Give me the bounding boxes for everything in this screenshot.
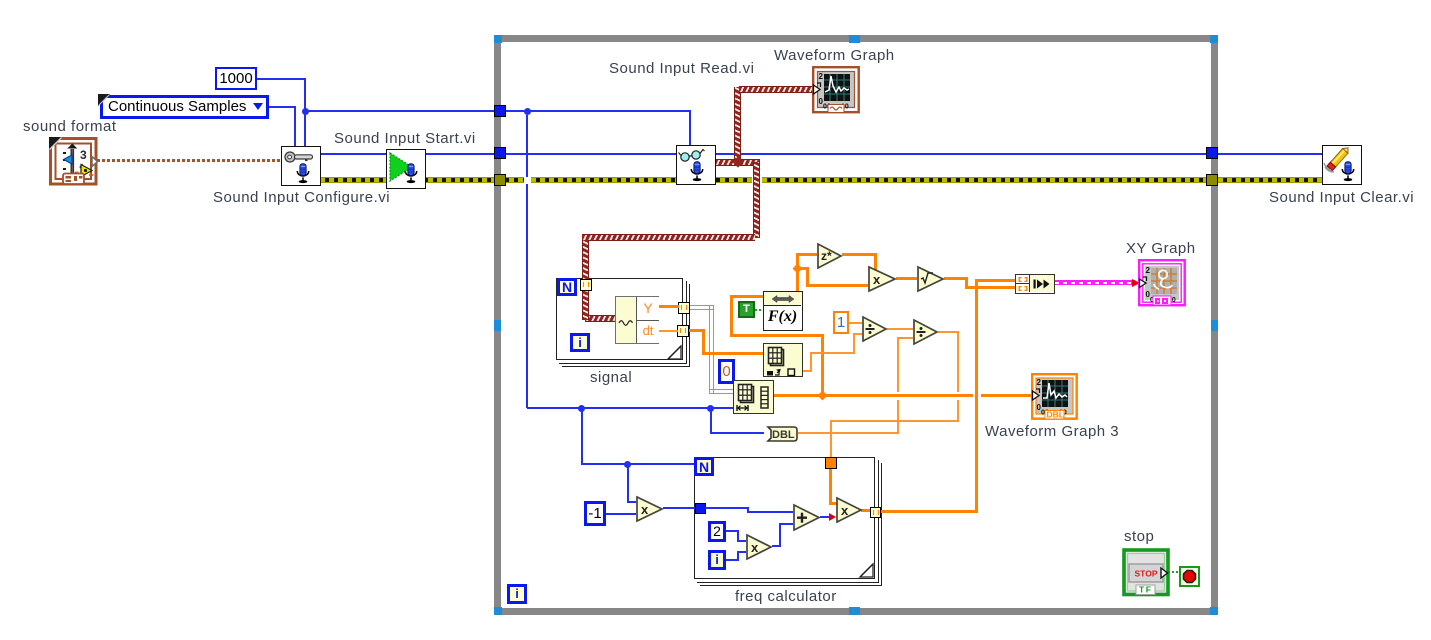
wire: 1000 vertical into Configure xyxy=(304,78,306,146)
tunnel: samples in (blue) xyxy=(494,105,506,117)
freq calculator for-loop stacked page 2 xyxy=(697,460,879,583)
wire: multiply2 out to plus bottom xyxy=(772,545,781,547)
wire: -1 out xyxy=(606,513,636,515)
wire: FFT output up from top xyxy=(796,253,799,291)
multiply (power spectrum) xyxy=(868,266,897,292)
wire: freq calc out to vertical xyxy=(881,510,978,513)
while loop left border xyxy=(494,35,501,615)
wire: stop to condition terminal xyxy=(1168,571,1180,573)
wire: number of samples to loop xyxy=(305,110,494,112)
wire: 1 const to divide1 xyxy=(849,322,862,324)
constant 0 xyxy=(718,359,735,384)
selection handle top-mid xyxy=(849,35,860,43)
selection handle top-left xyxy=(494,35,502,43)
freq loop N terminal xyxy=(694,457,714,476)
label XY Graph xyxy=(1126,240,1196,257)
square root xyxy=(917,266,945,292)
wire: long vertical N-feed xyxy=(526,115,528,177)
svg-text:DBL: DBL xyxy=(772,429,795,441)
red arrow at XY input xyxy=(1132,279,1140,287)
wire: striped to Waveform Graph xyxy=(739,86,812,93)
junction dot at 628,464 xyxy=(624,461,631,468)
wire: Y 2D array horizontal (double line) xyxy=(689,305,713,310)
wire: striped down vertical xyxy=(753,162,760,238)
wire: inside freq calc to plus xyxy=(705,507,749,509)
wire: FFT out branch to multiply bottom xyxy=(796,267,809,270)
wire: sqrt out to bundle xyxy=(944,277,968,280)
wire: Y 2D array into reshape xyxy=(709,389,733,394)
signal for-loop stacked page 3 xyxy=(562,284,690,367)
FFT node xyxy=(763,291,803,331)
wire: FFT branch vertical to y296 xyxy=(730,295,733,337)
freq calculator for-loop stacked page 3 xyxy=(700,463,882,586)
wire: into FFT left xyxy=(730,295,763,298)
svg-text:z*: z* xyxy=(821,249,832,263)
wire: error cluster main run xyxy=(320,177,524,183)
wire: bundle to XY graph xyxy=(1055,280,1135,285)
svg-text:x: x xyxy=(641,502,649,517)
wire: DBL up to divide2 bottom (gap at y395) xyxy=(897,338,899,392)
tunnel: error out (olive) xyxy=(1206,174,1218,186)
label Sound Input Configure.vi xyxy=(213,189,390,206)
svg-text:x: x xyxy=(873,272,881,287)
label Waveform Graph 3 xyxy=(985,423,1119,440)
index array node xyxy=(763,343,803,377)
label Sound Input Read.vi xyxy=(609,60,754,77)
constant Continuous Samples xyxy=(100,95,269,119)
multiply2 (2 x i) xyxy=(746,534,773,560)
wire: FFT out to z* xyxy=(796,253,817,256)
wire: z* out to multiply top xyxy=(842,253,877,256)
wire: multiply out to sqrt xyxy=(896,277,917,280)
wire: striped into signal loop xyxy=(582,240,589,320)
selection handle bottom-left xyxy=(494,607,502,615)
multiply3 xyxy=(836,497,863,523)
wire: index array out thin xyxy=(803,370,811,372)
main loop i terminal xyxy=(507,584,527,604)
striped wire inside into icon xyxy=(582,291,589,320)
junction dot at 581,408 xyxy=(578,405,585,412)
label DBL conversion tag xyxy=(763,426,799,442)
wire: striped bottom horizontal xyxy=(582,234,755,241)
wire: samples down into Read xyxy=(689,110,691,146)
wire: task id Configure to Start to loop xyxy=(320,153,734,155)
wire: down to freq calc N xyxy=(581,408,583,464)
svg-text:DBL: DBL xyxy=(1047,410,1064,420)
wire: continuous samples horizontal xyxy=(269,106,296,108)
wire: striped up branch vertical xyxy=(734,87,741,161)
label sound format xyxy=(23,118,117,135)
wire: freq calc N horizontal xyxy=(581,463,694,465)
wire: jog into multiply1 xyxy=(627,501,636,503)
wire: dt array out xyxy=(688,329,705,332)
wire: striped inside signal loop horizontal xyxy=(585,315,615,322)
while loop right border xyxy=(1211,35,1218,615)
label Sound Input Start.vi xyxy=(334,130,476,147)
tunnel: error in (olive) xyxy=(494,174,506,186)
signal loop dog-ear xyxy=(668,346,683,360)
wire: dt array to index icon xyxy=(702,352,763,355)
freq loop dog-ear xyxy=(860,564,875,578)
wire: task id to Clear xyxy=(1218,153,1322,155)
freq wires inside redrawn above frame xyxy=(705,507,749,509)
wire: plus out to multiply3 xyxy=(820,516,830,518)
freq loop i terminal xyxy=(708,550,726,570)
freq loop output tunnel xyxy=(870,507,881,518)
T dotted wire xyxy=(755,309,763,311)
constant -1 xyxy=(584,501,606,526)
divide 2 xyxy=(913,319,939,345)
selection handle top-right xyxy=(1210,35,1218,43)
label stop xyxy=(1124,528,1154,545)
freq calculator for-loop main frame xyxy=(694,457,875,579)
label signal xyxy=(590,369,632,386)
wire: down to multiply1 top xyxy=(627,464,629,503)
divide 1 xyxy=(862,316,888,342)
constant 1 xyxy=(833,311,849,334)
wire: FFT branch horizontal y335 xyxy=(730,334,824,337)
wire: 1000 to junction, horizontal xyxy=(257,78,306,80)
svg-text:TF: TF xyxy=(1139,585,1152,595)
svg-text:3: 3 xyxy=(80,148,87,162)
wire: samples inside loop horizontal xyxy=(505,110,691,112)
signal loop input tunnel xyxy=(580,279,592,291)
label Waveform Graph xyxy=(774,47,895,64)
junction diamond FFT out xyxy=(793,264,803,274)
selection handle bottom-mid xyxy=(849,607,860,615)
tunnel: dt out xyxy=(677,325,689,337)
reshape array node xyxy=(733,380,774,414)
while loop top border xyxy=(494,35,1218,42)
tunnel: Y out xyxy=(678,302,690,314)
svg-text:2: 2 xyxy=(1037,378,1042,387)
constant 2 xyxy=(708,521,726,542)
svg-text:STOP: STOP xyxy=(1135,569,1158,579)
selection handle bottom-right xyxy=(1210,607,1218,615)
constant 1000 xyxy=(215,67,257,90)
junction dot 1000 xyxy=(302,108,309,115)
wire: sound format cluster xyxy=(97,159,281,162)
wire: freq vertical to bundle top xyxy=(975,279,978,512)
multiply1 (-1 x N) xyxy=(636,496,664,522)
get waveform components icon xyxy=(615,296,659,344)
svg-text:x: x xyxy=(751,540,759,555)
wire: dt array vertical xyxy=(702,329,705,355)
wire: reshape out to WG3 (with crossing gap) xyxy=(774,394,973,397)
wire: dt out inside loop xyxy=(658,330,678,332)
signal loop N terminal xyxy=(557,278,577,296)
svg-text:2: 2 xyxy=(1146,266,1151,275)
selection handle left-mid xyxy=(494,320,501,331)
wire: to DBL down xyxy=(710,408,712,433)
constant T boolean xyxy=(738,301,755,318)
freq loop blue input tunnel xyxy=(695,503,706,514)
wire: divide1 out to divide2 xyxy=(887,328,913,330)
tunnel: task id out (blue) xyxy=(1206,147,1218,159)
wire: const2 to multiply2 xyxy=(726,530,739,532)
label freq calculator xyxy=(735,588,837,605)
add xyxy=(793,504,821,531)
wire: inside freq calc loop down from tunnel xyxy=(829,468,832,504)
wire: multiply3 out to out tunnel xyxy=(861,509,871,512)
tunnel: task id in (blue) xyxy=(494,147,506,159)
label Sound Input Clear.vi xyxy=(1269,189,1414,206)
wire: divide2 out down to freq calc tunnel xyxy=(938,331,959,333)
signal for-loop stacked page 2 xyxy=(559,281,687,364)
signal for-loop main frame xyxy=(556,278,683,360)
wire: Read data out horizontal xyxy=(715,159,760,166)
svg-text:2: 2 xyxy=(819,72,824,81)
junction dot at 711,408 xyxy=(707,405,714,412)
svg-text:x: x xyxy=(841,503,849,518)
wire: to DBL horizontal xyxy=(710,432,764,434)
wire: error cluster to Clear xyxy=(1218,177,1322,183)
bundle node xyxy=(1015,274,1055,294)
wire: FFT input from reshape branch: vertical up xyxy=(821,337,824,397)
coercion dot red xyxy=(829,513,836,521)
freq loop orange input tunnel xyxy=(825,457,837,469)
complex conjugate z* xyxy=(817,243,843,269)
wire: i to multiply2 xyxy=(726,559,739,561)
wire: continuous samples vertical into Configure xyxy=(294,106,296,146)
while loop bottom border xyxy=(494,608,1218,615)
junction dot samples xyxy=(524,108,531,115)
wire: N-feed horizontal at y408 xyxy=(527,407,733,409)
selection handle right-mid xyxy=(1211,320,1218,331)
wire: Y 2D array vertical xyxy=(709,305,714,393)
striped junction diamond xyxy=(732,156,743,167)
wire: Y out inside loop xyxy=(658,305,679,308)
wire: multiply1 out to tunnel xyxy=(663,507,696,509)
wire: DBL out xyxy=(798,432,899,434)
junction diamond reshape out xyxy=(818,391,828,401)
signal loop i terminal xyxy=(570,333,590,352)
